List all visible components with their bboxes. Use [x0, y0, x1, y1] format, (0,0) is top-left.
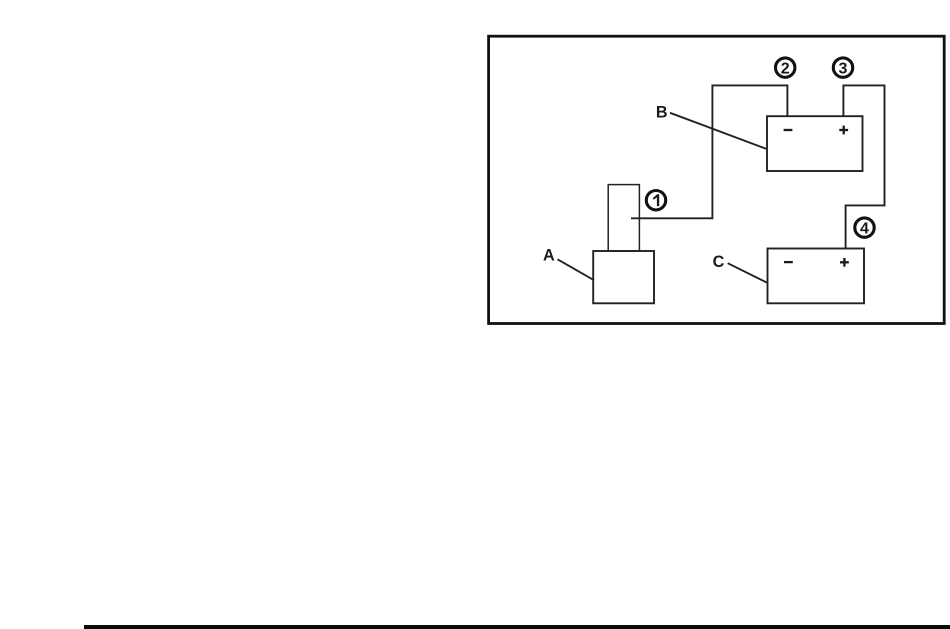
svg-text:C: C [713, 253, 725, 271]
battery B (booster battery) [767, 116, 863, 171]
svg-text:3: 3 [839, 60, 848, 77]
leader line for label B [670, 113, 767, 149]
connection marker 2 [776, 58, 795, 77]
connection marker 1 [646, 191, 665, 210]
wire: jumper cable from battery B positive (point 3) to battery C positive (point 4) [843, 85, 884, 248]
terminal plus of battery C [840, 258, 849, 267]
wire: jumper cable from point 1 on terminal A to battery B negative (point 2) [631, 85, 787, 218]
svg-text:B: B [656, 104, 668, 122]
terminal minus of battery B [784, 129, 793, 131]
connection marker 4 [855, 218, 874, 237]
svg-text:A: A [543, 246, 555, 264]
terminal minus of battery C [784, 261, 793, 263]
svg-text:2: 2 [781, 60, 790, 77]
component A (vehicle jump-start terminal block) [593, 185, 654, 304]
leader line for label A [558, 259, 595, 280]
terminal plus of battery B [839, 126, 848, 135]
connection marker 3 [833, 58, 852, 77]
svg-text:4: 4 [860, 220, 869, 237]
battery C (discharged battery) [768, 249, 865, 304]
leader line for label C [728, 263, 767, 283]
